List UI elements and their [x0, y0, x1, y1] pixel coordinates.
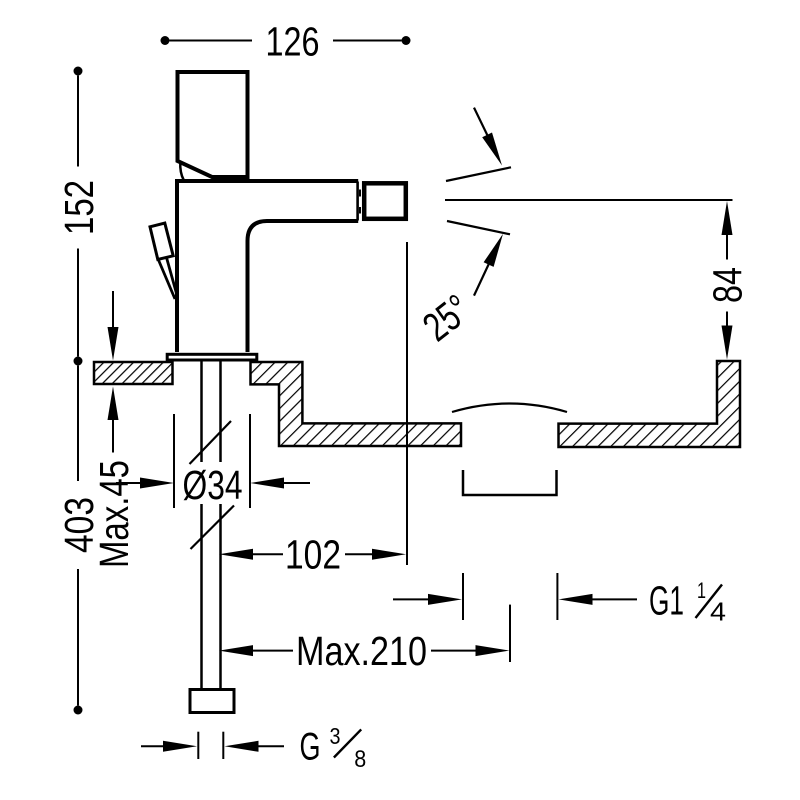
svg-text:102: 102: [285, 531, 341, 577]
svg-text:84: 84: [705, 267, 751, 303]
faucet handle cap: [178, 72, 248, 177]
svg-text:Ø34: Ø34: [183, 462, 243, 508]
escutcheon base: [167, 354, 257, 360]
svg-text:152: 152: [56, 180, 102, 235]
drain bracket: [463, 470, 557, 495]
dimension Max.210: [219, 605, 510, 674]
bottom fitting G3/8: [190, 690, 234, 713]
svg-text:Max.210: Max.210: [296, 628, 427, 674]
dimension O34 (hole diameter): [116, 414, 310, 508]
dimension 403 (total height): [56, 357, 102, 715]
svg-text:Max.45: Max.45: [91, 460, 137, 568]
pipe break marks: [190, 421, 235, 549]
svg-text:4: 4: [710, 597, 726, 627]
spray upper leg: [446, 167, 511, 181]
pivot arc: [180, 162, 183, 180]
spray lower leg: [447, 221, 510, 234]
dimension G1 1/4 (drain): [393, 573, 726, 627]
joint ticks: [359, 190, 361, 214]
faucet body and spout: [177, 181, 358, 352]
dimension G3/8 (supply thread): [141, 723, 366, 773]
svg-text:G: G: [300, 726, 321, 769]
dimension Max.45 (deck thickness): [91, 291, 137, 568]
spray reference line: [445, 199, 733, 201]
svg-text:3: 3: [330, 723, 341, 749]
spray lower arrow and 25 deg label: [414, 234, 503, 350]
svg-text:8: 8: [354, 746, 366, 773]
spray upper arrow: [474, 108, 502, 166]
nozzle projection line: [406, 242, 408, 565]
water surface arc: [452, 404, 567, 413]
dimension 102: [219, 531, 406, 577]
basin deck left (hatched): [94, 362, 173, 384]
nozzle: [364, 183, 406, 219]
basin step / bowl section (hatched): [251, 362, 462, 446]
dimension 126 (top width): [161, 19, 411, 65]
basin right wall (hatched L): [559, 361, 741, 447]
svg-text:1: 1: [697, 578, 706, 603]
supply pipes: [202, 362, 221, 690]
dimension 84 (spout height over rim): [705, 201, 751, 360]
svg-text:G1: G1: [649, 578, 684, 624]
lever handle: [150, 223, 177, 299]
svg-text:126: 126: [266, 19, 320, 65]
dimension 152 (spout height): [56, 67, 102, 357]
